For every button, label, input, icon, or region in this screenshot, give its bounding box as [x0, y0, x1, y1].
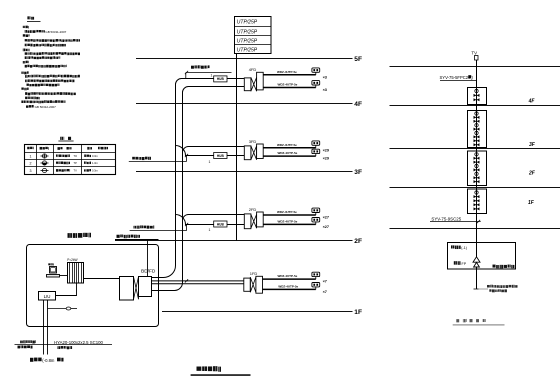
svg-text:UTP/25P: UTP/25P [237, 20, 258, 26]
svg-text:WDZ-4UTP-5e: WDZ-4UTP-5e [278, 274, 298, 278]
svg-text:P=2kW: P=2kW [67, 258, 77, 262]
svg-text:TP: TP [74, 161, 78, 165]
svg-text:WDZ-4UTP-5e: WDZ-4UTP-5e [278, 151, 298, 155]
svg-text:HUB: HUB [217, 222, 225, 226]
svg-text:GB 50312-2007: GB 50312-2007 [35, 105, 57, 109]
svg-text:TV: TV [74, 169, 78, 173]
svg-text:SYV-75-9SC25: SYV-75-9SC25 [431, 217, 461, 222]
svg-text:4F: 4F [528, 99, 536, 105]
svg-text:×3: ×3 [323, 75, 327, 79]
svg-text:1: 1 [209, 228, 211, 232]
svg-text:UTP/25P: UTP/25P [237, 48, 258, 54]
svg-text:GB 50311-2007: GB 50311-2007 [45, 30, 66, 34]
svg-text:FP: FP [462, 262, 467, 266]
svg-text:HUB: HUB [217, 77, 225, 81]
svg-text:WDZ-4UTP-5e: WDZ-4UTP-5e [277, 143, 297, 147]
svg-text:BD/FD: BD/FD [141, 269, 156, 275]
svg-text:2F: 2F [354, 238, 362, 245]
svg-text:SYV-75-5FPC20(: SYV-75-5FPC20( [440, 75, 473, 80]
svg-text:3F: 3F [529, 142, 536, 148]
svg-text:3F: 3F [354, 169, 362, 176]
svg-text:×7: ×7 [323, 280, 327, 284]
svg-text:TO: TO [74, 154, 78, 158]
svg-text:WDZ-4UTP-5e: WDZ-4UTP-5e [278, 219, 298, 223]
svg-text:2F: 2F [528, 171, 536, 177]
svg-text:WDZ-4UTP-5e: WDZ-4UTP-5e [277, 70, 297, 74]
svg-text:×29: ×29 [323, 157, 329, 161]
svg-text:1F: 1F [354, 309, 362, 316]
svg-text:×7: ×7 [323, 290, 327, 294]
svg-text:HUB: HUB [217, 154, 225, 158]
svg-text:TV: TV [471, 51, 477, 56]
svg-text:0.3m: 0.3m [92, 154, 98, 158]
svg-text:×27: ×27 [323, 216, 329, 220]
svg-text:1.3m: 1.3m [92, 161, 98, 165]
svg-text:1FD: 1FD [250, 271, 258, 276]
svg-text:0.3m: 0.3m [92, 169, 98, 173]
svg-text:4FD: 4FD [249, 67, 257, 72]
svg-text:LIU: LIU [44, 294, 51, 299]
svg-text:×27: ×27 [323, 225, 329, 229]
svg-text:×3: ×3 [323, 88, 327, 92]
svg-text:(-1): (-1) [461, 246, 467, 250]
svg-text:3: 3 [30, 169, 32, 173]
svg-text:4F: 4F [354, 101, 362, 108]
svg-text:×29: ×29 [323, 148, 329, 152]
svg-text:WDZ-4UTP-5e: WDZ-4UTP-5e [278, 83, 298, 87]
svg-text:2: 2 [30, 161, 32, 165]
svg-text:1: 1 [211, 74, 213, 78]
svg-text:UTP/25P: UTP/25P [237, 39, 258, 45]
svg-text:WDZ-4UTP-5e: WDZ-4UTP-5e [278, 284, 298, 288]
svg-text:1F: 1F [528, 200, 535, 206]
svg-text:1: 1 [209, 160, 211, 164]
svg-text:2FD: 2FD [249, 207, 257, 212]
svg-text:(-0.8m: (-0.8m [42, 358, 55, 363]
svg-text:1: 1 [30, 154, 32, 158]
svg-text:UTP/25P: UTP/25P [237, 30, 258, 36]
svg-text:WDZ-4UTP-5e: WDZ-4UTP-5e [277, 210, 297, 214]
svg-text:5F: 5F [354, 56, 362, 63]
svg-text:3FD: 3FD [249, 139, 257, 144]
